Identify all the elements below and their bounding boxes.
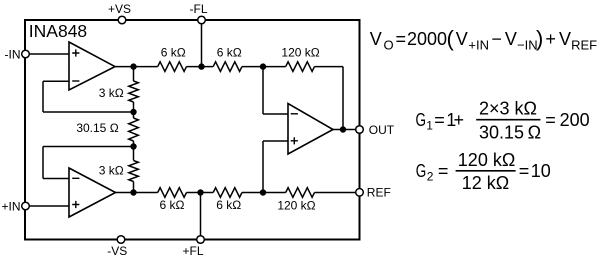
svg-text:O: O	[384, 37, 394, 52]
svg-text:REF: REF	[367, 185, 391, 199]
svg-text:V: V	[370, 29, 382, 49]
svg-text:-IN: -IN	[5, 47, 21, 61]
svg-text:30.15 Ω: 30.15 Ω	[479, 122, 541, 142]
svg-text:6 kΩ: 6 kΩ	[216, 198, 241, 212]
svg-text:=: =	[396, 29, 407, 49]
svg-text:): )	[536, 26, 543, 51]
svg-text:(: (	[447, 26, 455, 51]
svg-text:V: V	[559, 29, 571, 49]
svg-text:200: 200	[560, 110, 590, 130]
svg-text:+: +	[545, 29, 556, 49]
svg-text:+: +	[454, 110, 465, 130]
svg-text:30.15 Ω: 30.15 Ω	[76, 121, 118, 135]
svg-text:−: −	[491, 29, 502, 49]
svg-text:3 kΩ: 3 kΩ	[99, 164, 124, 178]
svg-text:G: G	[416, 161, 427, 181]
svg-text:=: =	[545, 110, 556, 130]
svg-text:OUT: OUT	[369, 123, 395, 137]
svg-text:1: 1	[426, 119, 433, 133]
svg-text:6 kΩ: 6 kΩ	[161, 45, 186, 59]
svg-text:−IN: −IN	[517, 37, 538, 52]
svg-text:+VS: +VS	[108, 2, 131, 16]
svg-text:2000: 2000	[407, 29, 447, 49]
svg-text:120 kΩ: 120 kΩ	[277, 198, 315, 212]
svg-text:6 kΩ: 6 kΩ	[217, 45, 242, 59]
svg-text:-VS: -VS	[107, 244, 127, 258]
svg-text:2×3 kΩ: 2×3 kΩ	[479, 98, 537, 118]
svg-text:6 kΩ: 6 kΩ	[160, 198, 185, 212]
svg-text:REF: REF	[571, 38, 597, 53]
svg-text:+IN: +IN	[1, 199, 20, 213]
svg-text:G: G	[416, 110, 427, 130]
svg-text:=: =	[519, 161, 530, 181]
svg-text:=: =	[438, 161, 449, 181]
svg-text:2: 2	[427, 170, 434, 184]
svg-text:3 kΩ: 3 kΩ	[99, 86, 124, 100]
svg-text:+FL: +FL	[182, 244, 203, 258]
svg-text:V: V	[505, 29, 517, 49]
svg-text:V: V	[456, 29, 468, 49]
svg-text:120 kΩ: 120 kΩ	[281, 45, 319, 59]
svg-text:-FL: -FL	[190, 2, 208, 16]
svg-text:=: =	[434, 110, 445, 130]
svg-text:INA848: INA848	[29, 21, 87, 41]
svg-text:+IN: +IN	[468, 37, 489, 52]
svg-text:12 kΩ: 12 kΩ	[462, 173, 509, 193]
svg-text:120 kΩ: 120 kΩ	[458, 150, 516, 170]
svg-text:10: 10	[531, 161, 551, 181]
